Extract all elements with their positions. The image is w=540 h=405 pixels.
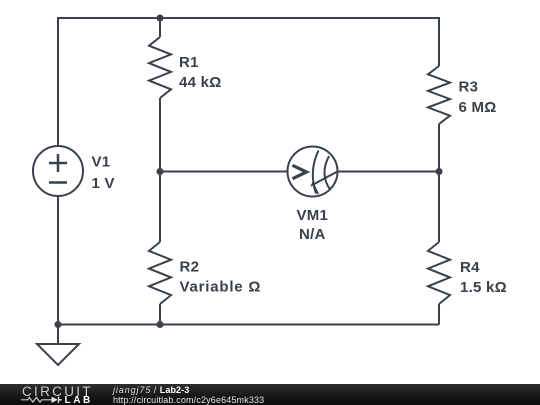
junction node bottom R2 [157, 321, 164, 328]
svg-text:R3: R3 [459, 79, 479, 96]
resistor R3 [428, 66, 450, 124]
footer user / project line [113, 385, 189, 395]
svg-text:6 MΩ: 6 MΩ [459, 99, 497, 116]
svg-text:N/A: N/A [299, 226, 326, 243]
wire top rail from V1 top over to R3 top [58, 18, 439, 146]
wire R1 top stub [159, 18, 161, 37]
resistor R4 [428, 242, 450, 304]
svg-text:V1: V1 [92, 154, 111, 171]
footer bar [0, 384, 540, 405]
resistor R1 [149, 37, 171, 98]
wire R1 bottom stub to middle node [159, 98, 161, 172]
svg-text:44 kΩ: 44 kΩ [179, 74, 221, 91]
junction node at top of R1 [157, 15, 164, 22]
wire R2 top stub [159, 172, 161, 243]
CircuitLab logo CIRCUIT text [22, 384, 93, 399]
junction node middle left [157, 168, 164, 175]
wire bottom rail [58, 324, 439, 326]
svg-text:VM1: VM1 [297, 207, 329, 224]
svg-text:1.5 kΩ: 1.5 kΩ [460, 279, 507, 296]
svg-text:R2: R2 [180, 259, 200, 276]
junction node middle right [436, 168, 443, 175]
voltmeter VM1 [288, 147, 338, 197]
wire V1 bottom lead [57, 196, 59, 325]
ground [37, 344, 79, 365]
wire R4 bottom stub [438, 304, 440, 325]
svg-text:R4: R4 [460, 259, 480, 276]
CircuitLab logo LAB text [65, 395, 93, 405]
svg-text:R1: R1 [179, 54, 199, 71]
svg-text:Variable Ω: Variable Ω [180, 279, 262, 296]
wire middle left from node to VM1 [160, 171, 288, 173]
CircuitLab logo resistor-diode glyph [0, 384, 100, 405]
footer url line [113, 395, 264, 405]
svg-text:1 V: 1 V [92, 175, 115, 192]
wire R4 top stub [438, 172, 440, 243]
wire R3 bottom stub to right node [438, 124, 440, 172]
wire R2 bottom stub [159, 304, 161, 325]
voltage source V1 [33, 146, 83, 196]
wire ground stub [57, 325, 59, 345]
resistor R2 [149, 242, 171, 304]
wire middle right from VM1 to right node [338, 171, 440, 173]
junction node bottom left [55, 321, 62, 328]
